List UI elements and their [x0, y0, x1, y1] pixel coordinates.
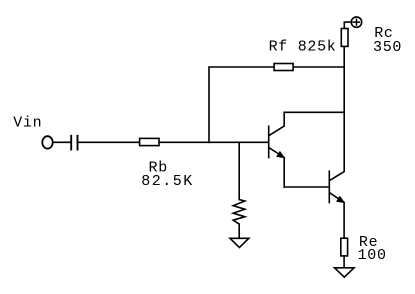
svg-text:350: 350 [373, 39, 402, 56]
svg-text:82.5K: 82.5K [141, 173, 194, 190]
svg-text:Rf 825k: Rf 825k [269, 39, 337, 56]
svg-text:Vin: Vin [13, 114, 42, 131]
svg-text:100: 100 [358, 247, 387, 264]
